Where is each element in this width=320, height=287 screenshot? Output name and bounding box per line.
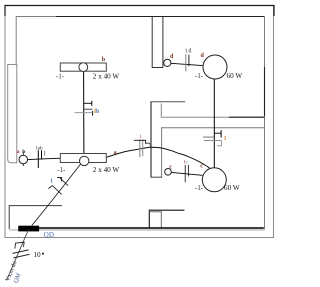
wire lamp b to lamp a — [83, 71, 85, 156]
ticks 1c — [185, 165, 188, 182]
inner wall bottom — [9, 229, 264, 231]
svg-text:QD: QD — [44, 231, 54, 239]
inner wall right black segment — [264, 67, 266, 116]
bottom doorway posts — [149, 210, 184, 228]
divider wall bottom cap — [151, 176, 163, 178]
svg-text:-1-: -1- — [195, 72, 204, 80]
fluorescent lamp b — [60, 63, 106, 72]
lamp c — [202, 168, 226, 192]
lamp d — [203, 55, 227, 79]
wire lamp d to lamp c — [213, 79, 215, 168]
switch 1b ticks — [75, 101, 93, 116]
svg-text:lab: lab — [36, 145, 43, 151]
switch d — [164, 59, 171, 66]
svg-text:-1-: -1- — [195, 184, 204, 192]
svg-text:1: 1 — [224, 136, 227, 142]
wire switch ab to lamp a — [28, 158, 61, 159]
svg-text:a: a — [114, 150, 117, 156]
ticks on arc wire — [134, 139, 150, 157]
svg-text:b: b — [22, 149, 25, 155]
svg-text:2 x 40 W: 2 x 40 W — [93, 166, 120, 174]
outer border black top — [5, 6, 274, 17]
doorway post right — [149, 212, 161, 228]
svg-text:a: a — [17, 149, 20, 155]
corridor wall short vertical — [161, 104, 264, 118]
main wire along bottom wall — [18, 227, 263, 229]
wire QD to lamp a — [32, 164, 81, 226]
svg-text:-1-: -1- — [56, 73, 65, 81]
fluorescent lamp a — [60, 154, 106, 166]
wire QD to meter — [7, 230, 29, 281]
house inner wall top — [16, 17, 264, 65]
ticks 1d — [186, 54, 189, 71]
svg-text:2 x 40 W: 2 x 40 W — [93, 73, 120, 81]
distribution board QD — [18, 226, 39, 232]
inner wall right — [264, 17, 266, 230]
top-middle wall — [152, 17, 163, 68]
wire switch c to lamp c — [171, 172, 202, 175]
wire switch d to lamp d — [171, 63, 203, 65]
svg-text:lc: lc — [184, 159, 189, 165]
meter crossbar — [15, 242, 24, 248]
inner wall top black segment — [56, 16, 265, 18]
bottom-right room top wall — [162, 128, 265, 177]
meter double ticks — [13, 250, 30, 258]
svg-text:c: c — [200, 163, 203, 169]
wall divider left vertical — [150, 102, 152, 177]
svg-text:60 W: 60 W — [227, 72, 243, 80]
ticks 1 on d-c wire — [203, 130, 222, 146]
outer page border — [5, 6, 274, 238]
alcove wall bottom-left — [9, 206, 62, 229]
svg-text:60 W: 60 W — [224, 184, 240, 192]
ticks on QD-a wire — [48, 178, 68, 195]
svg-text:1d: 1d — [185, 49, 192, 55]
svg-text:-1-: -1- — [57, 166, 66, 174]
ticks lab — [38, 150, 44, 168]
switch c — [165, 169, 172, 176]
svg-text:10: 10 — [34, 251, 42, 259]
switch ab — [19, 152, 28, 167]
svg-text:1: 1 — [50, 177, 53, 184]
svg-text:lb: lb — [94, 109, 100, 115]
wire arc lamp a to lamp c — [106, 147, 209, 168]
svg-text:c: c — [169, 164, 172, 170]
corridor wall black right part — [229, 116, 265, 118]
middle wall ledge — [151, 101, 186, 103]
door frame (left wall rounded rect) — [8, 65, 17, 163]
